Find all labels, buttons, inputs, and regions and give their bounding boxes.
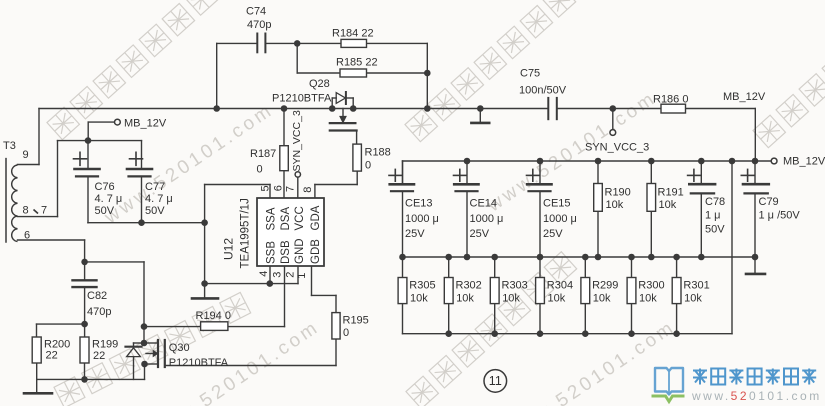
svg-text:Q30: Q30 (169, 342, 190, 354)
svg-text:1000 μ: 1000 μ (405, 213, 439, 225)
svg-text:8: 8 (23, 205, 29, 217)
svg-text:R302: R302 (456, 280, 482, 292)
svg-text:www.520101.com: www.520101.com (691, 389, 822, 403)
svg-text:R194 0: R194 0 (196, 310, 231, 322)
svg-text:R188: R188 (365, 147, 391, 159)
svg-text:P1210BTFA: P1210BTFA (272, 93, 332, 105)
svg-text:C76: C76 (95, 181, 115, 193)
svg-text:SSB: SSB (266, 241, 278, 264)
svg-text:1 μ /50V: 1 μ /50V (759, 210, 801, 222)
svg-text:22: 22 (46, 350, 58, 362)
svg-text:R304: R304 (547, 280, 573, 292)
svg-text:1000 μ: 1000 μ (470, 213, 504, 225)
svg-text:4. 7 μ: 4. 7 μ (95, 193, 123, 205)
svg-text:25V: 25V (470, 228, 490, 240)
svg-text:GDB: GDB (310, 239, 322, 264)
svg-text:1000 μ: 1000 μ (543, 213, 577, 225)
svg-text:T3: T3 (3, 140, 16, 152)
svg-text:C75: C75 (520, 68, 540, 80)
svg-text:SSA: SSA (266, 207, 278, 230)
svg-text:25V: 25V (405, 228, 425, 240)
svg-text:50V: 50V (145, 205, 165, 217)
svg-text:C79: C79 (759, 196, 779, 208)
svg-text:R187: R187 (250, 148, 276, 160)
svg-text:2: 2 (284, 272, 296, 278)
svg-text:1 μ: 1 μ (705, 210, 721, 222)
svg-text:CE14: CE14 (470, 198, 498, 210)
svg-text:6: 6 (24, 230, 30, 242)
svg-text:R185 22: R185 22 (336, 57, 378, 69)
svg-text:0: 0 (343, 327, 349, 339)
svg-text:MB_12V: MB_12V (124, 118, 167, 130)
svg-text:11: 11 (489, 374, 502, 388)
svg-text:470p: 470p (87, 306, 111, 318)
svg-text:R300: R300 (638, 280, 664, 292)
svg-text:MB_12V: MB_12V (723, 91, 766, 103)
svg-text:R299: R299 (592, 280, 618, 292)
svg-text:R195: R195 (343, 315, 369, 327)
svg-text:10k: 10k (606, 199, 624, 211)
svg-text:25V: 25V (543, 228, 563, 240)
svg-text:470p: 470p (247, 19, 271, 31)
svg-text:10k: 10k (502, 293, 520, 305)
svg-text:0: 0 (257, 164, 263, 176)
svg-text:C77: C77 (145, 181, 165, 193)
svg-text:R303: R303 (502, 280, 528, 292)
svg-text:TEA1995T/1J: TEA1995T/1J (240, 198, 252, 268)
svg-text:R301: R301 (683, 280, 709, 292)
svg-text:50V: 50V (705, 224, 725, 236)
svg-text:R184 22: R184 22 (332, 28, 374, 40)
svg-text:9: 9 (23, 149, 29, 161)
svg-text:10k: 10k (639, 293, 657, 305)
svg-text:R305: R305 (409, 280, 435, 292)
svg-text:SYN_VCC_3: SYN_VCC_3 (291, 110, 303, 171)
svg-text:GND: GND (294, 238, 306, 264)
svg-text:10k: 10k (410, 293, 428, 305)
svg-text:R191: R191 (658, 187, 684, 199)
svg-text:R199: R199 (92, 339, 118, 351)
svg-text:DSB: DSB (280, 240, 292, 264)
svg-text:10k: 10k (659, 199, 677, 211)
svg-text:U12: U12 (222, 238, 236, 260)
svg-text:R190: R190 (605, 187, 631, 199)
svg-text:22: 22 (93, 350, 105, 362)
svg-text:10k: 10k (684, 293, 702, 305)
svg-text:SYN_VCC_3: SYN_VCC_3 (585, 142, 649, 154)
svg-text:CE13: CE13 (405, 198, 433, 210)
svg-text:6: 6 (273, 185, 285, 191)
svg-text:VCC: VCC (294, 206, 306, 230)
svg-text:7: 7 (285, 186, 297, 192)
svg-text:10k: 10k (548, 293, 566, 305)
svg-text:GDA: GDA (310, 205, 322, 230)
svg-text:3: 3 (272, 272, 284, 278)
svg-text:DSA: DSA (280, 207, 292, 231)
svg-text:CE15: CE15 (543, 198, 571, 210)
svg-text:Q28: Q28 (309, 78, 330, 90)
svg-text:1: 1 (296, 273, 308, 279)
svg-text:MB_12V: MB_12V (783, 156, 825, 168)
svg-text:0: 0 (365, 160, 371, 172)
svg-text:10k: 10k (456, 293, 474, 305)
svg-text:P1210BTFA: P1210BTFA (169, 357, 229, 369)
svg-text:7: 7 (41, 205, 47, 217)
svg-text:8: 8 (302, 187, 314, 193)
svg-text:C74: C74 (246, 6, 266, 18)
svg-text:50V: 50V (95, 205, 115, 217)
svg-text:100n/50V: 100n/50V (519, 85, 567, 97)
svg-text:5: 5 (260, 185, 272, 191)
svg-text:4: 4 (258, 271, 270, 277)
svg-text:4. 7 μ: 4. 7 μ (145, 193, 173, 205)
svg-text:C78: C78 (705, 196, 725, 208)
svg-text:10k: 10k (593, 293, 611, 305)
svg-text:R186 0: R186 0 (653, 94, 688, 106)
svg-text:C82: C82 (87, 290, 107, 302)
